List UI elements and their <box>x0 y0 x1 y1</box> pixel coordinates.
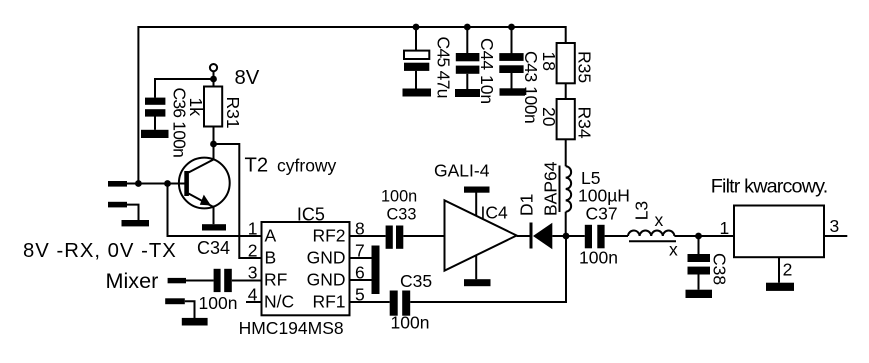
svg-text:RF: RF <box>264 269 287 289</box>
svg-text:C38: C38 <box>710 253 730 285</box>
svg-text:IC4: IC4 <box>481 202 509 222</box>
svg-text:8: 8 <box>355 218 365 238</box>
svg-text:C37: C37 <box>586 204 618 224</box>
svg-text:100n: 100n <box>579 248 618 268</box>
svg-text:Filtr kwarcowy.: Filtr kwarcowy. <box>711 175 828 197</box>
svg-text:8V -RX, 0V -TX: 8V -RX, 0V -TX <box>23 240 177 262</box>
svg-text:8V: 8V <box>235 67 260 89</box>
svg-text:L3: L3 <box>632 201 652 220</box>
svg-text:7: 7 <box>355 240 365 260</box>
svg-text:3: 3 <box>248 262 258 282</box>
svg-text:100n: 100n <box>199 293 238 313</box>
svg-text:18: 18 <box>539 52 559 71</box>
svg-text:HMC194MS8: HMC194MS8 <box>239 318 344 338</box>
svg-text:C45 47u: C45 47u <box>434 37 454 98</box>
svg-text:R31: R31 <box>223 97 243 129</box>
svg-text:C44 10n: C44 10n <box>477 38 497 104</box>
svg-text:C43 100n: C43 100n <box>521 51 541 123</box>
svg-text:R35: R35 <box>575 51 595 83</box>
svg-text:N/C: N/C <box>264 291 294 311</box>
svg-text:20: 20 <box>539 107 559 127</box>
svg-text:x: x <box>655 210 664 230</box>
svg-text:1: 1 <box>720 218 730 238</box>
svg-text:5: 5 <box>355 284 365 304</box>
svg-text:1k: 1k <box>186 98 206 117</box>
svg-text:IC5: IC5 <box>297 205 325 225</box>
svg-text:cyfrowy: cyfrowy <box>277 155 337 175</box>
svg-text:4: 4 <box>248 284 258 304</box>
svg-text:GALI-4: GALI-4 <box>434 160 490 180</box>
svg-text:T2: T2 <box>245 154 269 176</box>
svg-text:C34: C34 <box>197 238 230 258</box>
svg-text:C33: C33 <box>387 206 417 224</box>
svg-text:RF1: RF1 <box>312 291 345 311</box>
svg-text:1: 1 <box>248 218 258 238</box>
svg-text:B: B <box>265 247 277 267</box>
svg-text:D1: D1 <box>517 194 537 216</box>
svg-text:Mixer: Mixer <box>106 268 159 293</box>
svg-text:100n: 100n <box>391 313 430 333</box>
svg-text:100µH: 100µH <box>578 185 630 205</box>
svg-text:100n: 100n <box>381 187 417 205</box>
svg-text:GND: GND <box>307 269 346 289</box>
svg-text:C35: C35 <box>400 271 432 291</box>
svg-text:x: x <box>669 240 678 260</box>
svg-text:6: 6 <box>355 262 365 282</box>
svg-text:R34: R34 <box>575 107 595 139</box>
svg-text:A: A <box>265 225 277 245</box>
svg-text:BAP64: BAP64 <box>541 161 561 216</box>
svg-text:3: 3 <box>830 216 840 236</box>
svg-text:2: 2 <box>248 240 258 260</box>
svg-text:GND: GND <box>307 247 346 267</box>
svg-text:2: 2 <box>783 260 793 280</box>
svg-text:RF2: RF2 <box>312 225 345 245</box>
